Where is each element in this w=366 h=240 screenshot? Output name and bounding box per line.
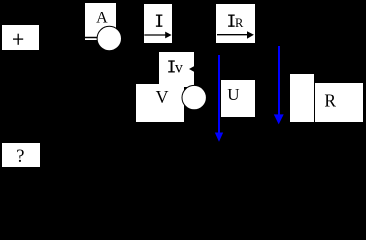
resistor label box R <box>315 83 363 122</box>
arrow IR direction <box>217 34 248 36</box>
svg-text:?: ? <box>16 147 24 167</box>
ammeter label box A <box>85 3 116 40</box>
battery plus label box <box>2 25 39 50</box>
resistor right border <box>314 74 315 122</box>
svg-text:R: R <box>324 91 336 111</box>
ammeter circle <box>97 26 121 50</box>
resistor body <box>290 74 314 122</box>
svg-text:v: v <box>175 60 183 77</box>
question label box <box>2 143 40 167</box>
wire into ammeter <box>85 37 98 39</box>
arrow I direction <box>144 34 166 36</box>
label I <box>156 15 163 27</box>
blue current arrow (voltmeter branch) <box>218 55 220 133</box>
blue current arrow (resistor branch) <box>278 46 280 115</box>
voltmeter label box V <box>136 84 184 122</box>
current I label box <box>144 4 172 43</box>
arrowhead toward voltmeter <box>189 66 194 72</box>
label IR <box>228 15 235 27</box>
label Iv <box>168 60 175 72</box>
current Iv label box <box>159 52 194 87</box>
svg-text:V: V <box>156 87 169 107</box>
svg-text:U: U <box>227 85 239 104</box>
current IR label box <box>216 4 255 43</box>
voltage U label box <box>221 80 255 117</box>
svg-text:A: A <box>96 10 108 27</box>
svg-text:R: R <box>235 16 244 30</box>
voltmeter circle <box>182 85 206 109</box>
plus sign <box>13 34 23 45</box>
